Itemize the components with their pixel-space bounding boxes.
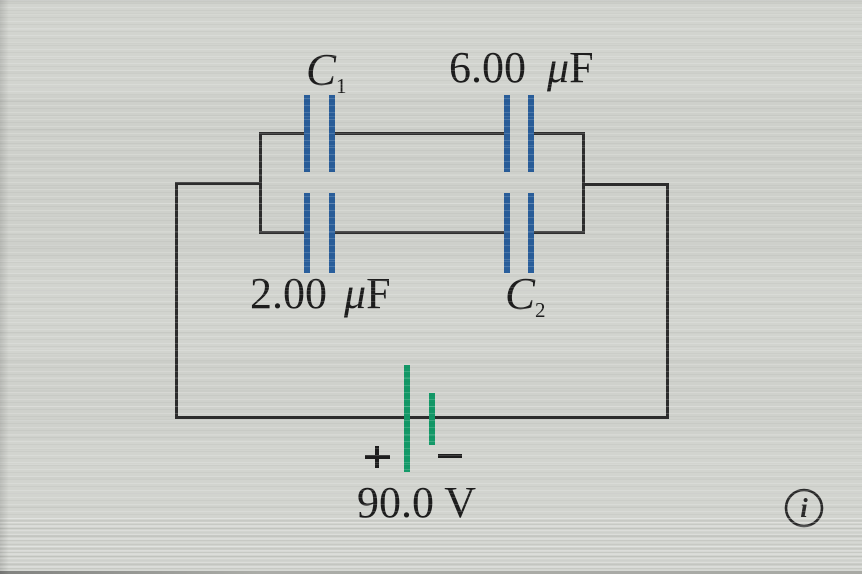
wire : bottom rail segment 2	[332, 231, 507, 234]
faint moire band lower	[0, 355, 862, 440]
wire : outer loop left vertical	[175, 182, 178, 419]
capacitor C1 (top-left) right plate	[329, 95, 335, 172]
stronger scanline band near bottom	[0, 518, 862, 571]
left edge shading	[0, 0, 9, 574]
label C2	[505, 268, 546, 323]
wire : top rail segment 3	[531, 132, 585, 135]
label + (battery positive) : horizontal stroke	[365, 455, 390, 459]
capacitor 2.00 uF (bottom-left) left plate	[304, 193, 310, 273]
wire : outer loop right tap horizontal	[582, 183, 669, 186]
wire : inner rectangle right vertical (node B)	[582, 132, 585, 234]
capacitor C1 (top-left) left plate	[304, 95, 310, 172]
battery 90.0 V short plate (negative)	[429, 393, 435, 445]
wire : outer loop left tap horizontal	[175, 182, 262, 185]
label 6.00 uF	[449, 42, 594, 93]
bottom dark edge	[0, 571, 862, 574]
wire : bottom rail segment 3	[531, 231, 585, 234]
wire : outer loop right vertical	[666, 183, 669, 419]
capacitor 6.00 uF (top-right) left plate	[504, 95, 510, 172]
capacitor 6.00 uF (top-right) right plate	[528, 95, 534, 172]
wire : top rail segment 1	[259, 132, 307, 135]
capacitor C2 (bottom-right) right plate	[528, 193, 534, 273]
label 2.00 uF	[250, 268, 391, 319]
label - (battery negative) : bar	[438, 454, 462, 458]
wire : outer loop bottom horizontal	[175, 416, 669, 419]
faint moire band mid	[0, 95, 862, 260]
info icon (circled italic i) bottom right	[783, 487, 825, 529]
wire : top rail segment 2	[332, 132, 507, 135]
svg-text:i: i	[800, 493, 808, 523]
wire : bottom rail segment 1	[259, 231, 307, 234]
capacitor C2 (bottom-right) left plate	[504, 193, 510, 273]
label + (battery positive) : vertical stroke	[375, 446, 379, 468]
label 90.0 V	[357, 477, 476, 528]
capacitor 2.00 uF (bottom-left) right plate	[329, 193, 335, 273]
label C1	[306, 44, 347, 99]
wire : inner rectangle left vertical (node A)	[259, 132, 262, 234]
battery 90.0 V long plate (positive)	[404, 365, 410, 472]
top edge shading	[0, 0, 862, 4]
